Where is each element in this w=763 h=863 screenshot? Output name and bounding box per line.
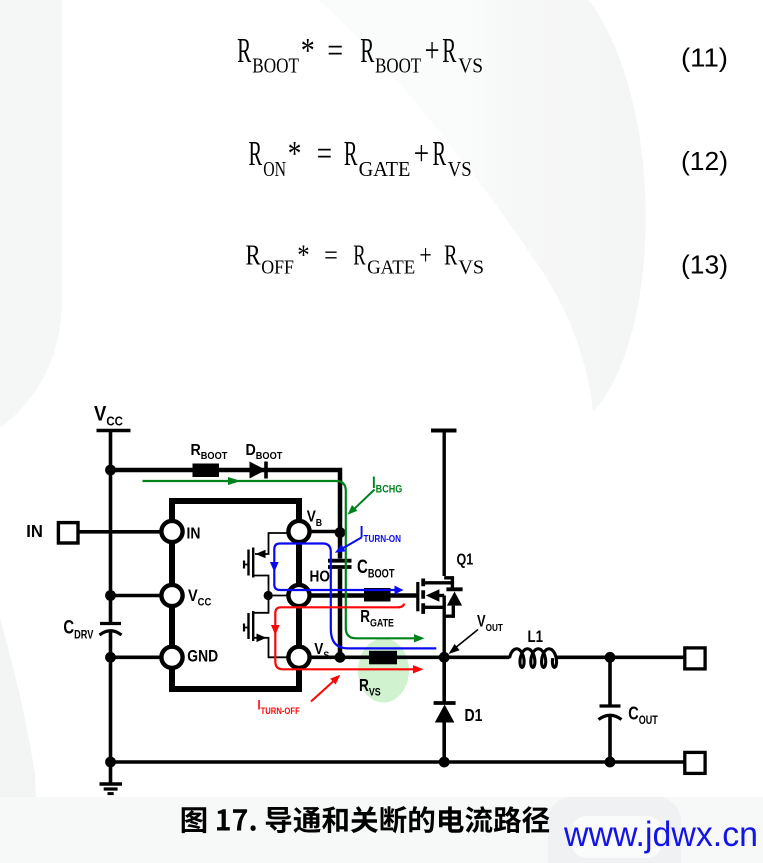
svg-text:GATE: GATE <box>359 157 411 181</box>
svg-text:=: = <box>327 31 343 70</box>
svg-text:ON: ON <box>263 157 286 181</box>
svg-text:(11): (11) <box>681 42 728 72</box>
svg-text:R: R <box>344 134 358 173</box>
svg-text:IN: IN <box>187 526 201 543</box>
svg-text:R: R <box>237 31 251 70</box>
svg-text:R: R <box>249 134 263 173</box>
svg-text:R: R <box>246 240 262 272</box>
svg-text:=: = <box>317 134 332 173</box>
svg-text:(12): (12) <box>681 146 728 176</box>
svg-text:=: = <box>324 240 338 272</box>
svg-text:www.jdwx.cn: www.jdwx.cn <box>563 815 758 854</box>
svg-text:R: R <box>444 240 458 272</box>
svg-text:HO: HO <box>310 569 330 586</box>
svg-text:Q1: Q1 <box>457 551 474 569</box>
svg-text:R: R <box>353 240 366 272</box>
svg-text:L1: L1 <box>528 628 544 647</box>
svg-text:*: * <box>288 134 302 173</box>
svg-text:R: R <box>442 31 456 70</box>
svg-text:*: * <box>297 240 309 272</box>
svg-text:IN: IN <box>26 522 43 541</box>
svg-text:VS: VS <box>458 256 484 278</box>
svg-text:R: R <box>360 31 374 70</box>
svg-text:+: + <box>414 134 429 173</box>
svg-text:OFF: OFF <box>261 256 294 278</box>
svg-text:+: + <box>425 31 440 70</box>
svg-text:R: R <box>433 134 447 173</box>
svg-text:VS: VS <box>448 157 472 181</box>
svg-text:*: * <box>301 31 315 70</box>
svg-text:BOOT: BOOT <box>252 54 299 78</box>
svg-text:(13): (13) <box>681 250 728 280</box>
svg-text:VS: VS <box>458 54 483 78</box>
svg-text:GATE: GATE <box>367 256 415 278</box>
svg-text:BOOT: BOOT <box>375 54 421 78</box>
svg-text:+: + <box>419 240 431 272</box>
svg-text:D1: D1 <box>465 705 483 725</box>
svg-text:GND: GND <box>187 648 218 666</box>
